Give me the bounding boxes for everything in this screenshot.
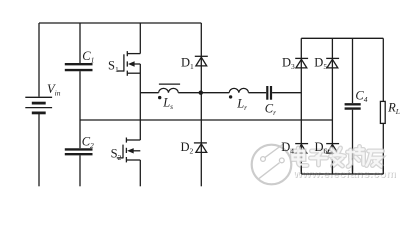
resistor RL — [380, 101, 385, 123]
inductor Ls — [159, 84, 181, 93]
diode D1 — [200, 23, 202, 93]
wire S1 source / S2 drain vertical — [139, 64, 141, 140]
wire C1 C2 branch lower — [79, 155, 81, 186]
wire Cr to rectifier — [272, 92, 301, 94]
transistor S2 — [117, 138, 141, 163]
wire D5 D6 leg lower re-ink — [331, 166, 333, 175]
capacitor C4 — [345, 104, 361, 108]
capacitor C1 — [65, 64, 93, 70]
wire D3 D4 leg — [300, 38, 302, 174]
watermark text 电子发烧友 (over circuit) — [293, 147, 383, 167]
wire left rail top segment — [38, 23, 40, 97]
wire D3 D4 leg lower re-ink — [300, 166, 302, 175]
node junction dot — [199, 91, 203, 95]
wire S2 source down — [139, 160, 141, 186]
capacitor Cr — [267, 86, 271, 100]
diode D2 — [200, 93, 202, 187]
wire rectifier top rail — [301, 37, 383, 39]
wire left rail bottom segment — [38, 114, 40, 186]
wire node A horizontal (S1 source to rectifier) — [140, 92, 158, 94]
capacitor C2 — [65, 149, 93, 154]
wire top rail — [39, 22, 201, 24]
watermark logo circle — [252, 144, 292, 184]
wire C4 leg lower re-ink — [352, 166, 354, 175]
wire D5 D6 leg — [331, 38, 333, 174]
wire Ls to node junction — [178, 92, 229, 94]
wire C4 leg upper — [352, 38, 354, 103]
transistor S1 — [118, 51, 141, 76]
wire C1 C2 branch middle — [79, 71, 81, 148]
wire midpoint net (C1/C2 junction to D5 D6 leg) — [80, 119, 332, 121]
wire rectifier bottom rail — [301, 173, 383, 175]
wire C1 C2 branch upper — [79, 23, 81, 63]
wire RL leg upper — [382, 38, 384, 101]
wire C4 leg lower — [352, 110, 354, 174]
wire S1 drain to top rail — [139, 23, 141, 54]
wire rectifier bottom rail re-ink over watermark — [301, 173, 383, 175]
inductor Lr — [229, 88, 248, 92]
diode D6 — [326, 144, 339, 154]
diode D5 — [326, 58, 339, 68]
wire Lr to Cr — [249, 92, 267, 94]
battery Vin — [25, 97, 52, 113]
diode D4 — [295, 144, 308, 154]
diode D3 — [295, 58, 308, 68]
wire RL leg lower re-ink — [382, 166, 384, 175]
wire RL leg lower — [382, 123, 384, 174]
